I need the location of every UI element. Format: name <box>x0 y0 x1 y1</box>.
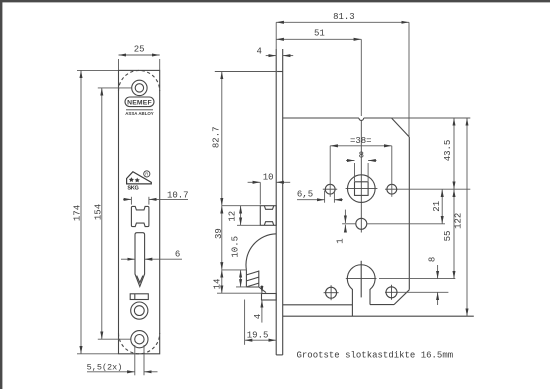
cylinder fixing hole left <box>324 285 339 300</box>
latch cutout spool <box>131 206 149 226</box>
dim 6,5 lines <box>297 191 343 203</box>
dim 82.7 lines <box>215 72 278 206</box>
svg-text:82.7: 82.7 <box>212 126 222 148</box>
dim 14 lines <box>217 270 262 293</box>
svg-text:1: 1 <box>336 238 346 243</box>
cylinder fixing hole right <box>385 285 398 300</box>
label 4 bottom <box>253 314 263 319</box>
faceplate outline (front view) <box>119 70 160 353</box>
svg-text:12: 12 <box>228 211 238 222</box>
latch bolt side view <box>260 206 276 226</box>
border frame left <box>0 0 2 389</box>
follower ring hole <box>131 302 148 319</box>
label 174 <box>73 205 83 221</box>
faceplate rounded-end hidden arc bottom <box>119 333 160 354</box>
dim 154 lines <box>98 88 132 339</box>
case top notch <box>359 118 364 120</box>
dim 10.5 lines <box>236 270 259 287</box>
case bottom-right chamfer <box>394 290 409 305</box>
dim 25 lines <box>119 55 160 70</box>
dim 43.5 lines <box>453 118 455 189</box>
fixing hole right (38mm) <box>385 184 398 194</box>
dim 39 lines <box>222 206 260 270</box>
case bottom shelf left <box>283 304 353 306</box>
dim 10.7 lines <box>123 197 188 205</box>
dim 5,5(2x) lines <box>87 345 158 375</box>
label 10.5 <box>231 236 241 258</box>
svg-text:=38=: =38= <box>350 136 372 146</box>
label 51 <box>314 29 325 39</box>
spindle square <box>355 182 369 196</box>
case top extension right <box>392 117 471 119</box>
label 25 <box>134 44 145 54</box>
cylinder hole centerline extension right <box>398 291 448 293</box>
dim 1 lines <box>342 210 356 232</box>
cylinder centerline horizontal <box>346 278 377 280</box>
dim 10 lines <box>248 182 291 204</box>
svg-text:25: 25 <box>134 44 145 54</box>
label 81.3 <box>333 12 355 22</box>
dim 6 lines <box>121 258 182 260</box>
note grootste slotkastdikte <box>297 351 454 361</box>
dim 4 top lines <box>266 55 294 57</box>
spindle hub circle <box>348 175 376 203</box>
svg-text:81.3: 81.3 <box>333 12 355 22</box>
label 4 top <box>256 46 261 56</box>
svg-text:10.7: 10.7 <box>167 190 189 200</box>
label =38= <box>350 136 372 146</box>
svg-text:4: 4 <box>256 46 261 56</box>
case top-right chamfer <box>392 118 410 137</box>
bottom screw hole <box>131 331 148 348</box>
label 82.7 <box>212 126 222 148</box>
svg-text:21: 21 <box>432 201 442 212</box>
label 6,5 <box>297 190 313 200</box>
svg-text:SKG: SKG <box>127 186 138 192</box>
svg-text:10: 10 <box>263 173 274 183</box>
svg-text:19.5: 19.5 <box>247 330 269 340</box>
label 14 <box>213 279 223 290</box>
small hole below spindle <box>356 196 367 233</box>
dim 19.5 lines <box>245 300 277 345</box>
svg-text:4: 4 <box>253 314 263 319</box>
small hole centerline extension right <box>367 223 445 225</box>
fixing hole left (38mm) <box>323 184 337 194</box>
label 10 <box>263 173 274 183</box>
label 8 right <box>427 257 437 262</box>
auxiliary bolt side view <box>262 294 277 301</box>
label 8 spindle <box>359 151 364 161</box>
euro cylinder hole <box>347 265 375 316</box>
svg-text:Grootste slotkastdikte 16.5mm: Grootste slotkastdikte 16.5mm <box>297 351 454 361</box>
faceplate side view strip <box>276 49 283 355</box>
label 19.5 <box>247 330 269 340</box>
svg-text:55: 55 <box>443 231 453 242</box>
lock case top edge <box>283 117 392 119</box>
svg-text:10.5: 10.5 <box>231 236 241 258</box>
top screw hole <box>132 80 147 95</box>
label 122 <box>453 213 463 229</box>
spindle centerline <box>346 120 378 196</box>
label 5,5(2x) <box>87 362 123 372</box>
dim 55 lines <box>453 189 455 278</box>
dim 51 lines <box>276 39 361 116</box>
case right edge <box>408 137 410 290</box>
faceplate rounded-end hidden arc top <box>119 70 160 91</box>
svg-text:174: 174 <box>73 205 83 221</box>
dim 8 right lines <box>437 265 439 305</box>
case bottom edge <box>283 315 474 317</box>
label 154 <box>93 204 103 220</box>
svg-text:43.5: 43.5 <box>443 140 453 162</box>
dim 4 bottom lines <box>261 285 263 322</box>
dim 12 lines <box>237 206 260 226</box>
SKG house logo <box>127 171 152 192</box>
dim 21 lines <box>441 189 443 224</box>
deadbolt side view thrown <box>246 270 266 293</box>
dim 122 lines <box>466 118 468 316</box>
label 55 <box>443 231 453 242</box>
label 12 <box>228 211 238 222</box>
label 39 <box>214 228 224 239</box>
cylinder centerline vertical <box>360 261 362 298</box>
latch swing arc <box>246 234 276 270</box>
svg-text:39: 39 <box>214 228 224 239</box>
NEMEF logo oval <box>125 97 154 107</box>
svg-text:6: 6 <box>175 250 180 260</box>
deadbolt slot front view <box>135 233 145 287</box>
label 21 <box>432 201 442 212</box>
svg-text:51: 51 <box>314 29 325 39</box>
label 6 <box>175 250 180 260</box>
svg-text:8: 8 <box>427 257 437 262</box>
label 1 <box>336 238 346 243</box>
dim 81.3 lines <box>276 22 409 137</box>
svg-text:122: 122 <box>453 213 463 229</box>
ASSA ABLOY wordmark <box>125 110 154 116</box>
border frame top <box>0 0 550 2</box>
svg-text:ASSA ABLOY: ASSA ABLOY <box>125 111 154 116</box>
svg-text:6,5: 6,5 <box>297 190 313 200</box>
label 43.5 <box>443 140 453 162</box>
NEMEF wordmark <box>127 99 152 106</box>
svg-text:8: 8 <box>359 151 364 161</box>
spindle centerline extension right <box>398 188 470 190</box>
svg-text:R: R <box>145 172 148 177</box>
auxiliary bolt slot front view <box>130 294 148 300</box>
svg-text:154: 154 <box>93 204 103 220</box>
svg-text:5,5(2x): 5,5(2x) <box>87 362 123 372</box>
svg-text:NEMEF: NEMEF <box>127 99 152 106</box>
dim 174 lines <box>77 70 118 353</box>
dim =38= lines <box>330 146 392 197</box>
cylinder centerline extension right <box>379 278 455 280</box>
svg-text:14: 14 <box>213 279 223 290</box>
dim 8 spindle lines <box>346 161 377 182</box>
case bottom shelf right <box>370 304 394 306</box>
label 10.7 <box>167 190 189 200</box>
